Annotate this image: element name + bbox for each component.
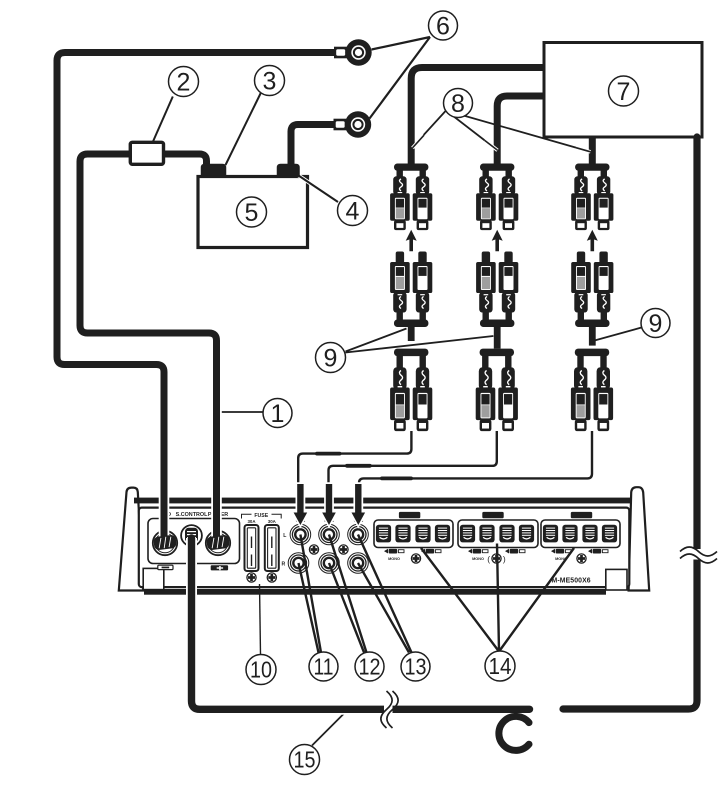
callout 9 right: [641, 309, 670, 338]
leader line callout 10 to fuses: [260, 584, 261, 655]
leader lines callout 11 to ch-A input jacks: [299, 535, 322, 653]
amplifier bottom band: [144, 589, 606, 595]
cord 8a head unit to column 1: [411, 68, 544, 166]
leader line callout 9 right to junction: [595, 328, 642, 341]
CH-C label badge: [571, 512, 592, 518]
callout 14: [485, 651, 515, 681]
battery positive cable: ring terminal to battery: [291, 125, 341, 167]
signal lead column 3 to amp: [359, 431, 592, 488]
speaker terminals CH-B: [460, 525, 475, 543]
fuse screw 2: [267, 573, 276, 582]
svg-text:CH-C: CH-C: [576, 513, 589, 519]
svg-text:6: 6: [436, 13, 450, 41]
leader lines callout 13 to ch-C input jacks: [358, 535, 412, 653]
fuse holder (2): [130, 142, 163, 164]
polarity pills CH-B: [468, 549, 488, 554]
power terminal block outline: [148, 519, 240, 564]
svg-text:7: 7: [617, 78, 631, 106]
leader tip overlays callout 8: [413, 135, 425, 148]
callout 13: [401, 652, 430, 681]
svg-text:14: 14: [489, 653, 512, 679]
plug arrow into jack C: [352, 484, 366, 525]
polarity pills CH-A: [384, 549, 404, 554]
input jack L ch-C: [348, 524, 369, 545]
svg-text:8: 8: [451, 90, 465, 118]
svg-text:(: (: [487, 554, 490, 564]
speaker terminals CH-C: [543, 525, 558, 543]
fuse holder 2: [265, 525, 279, 571]
plug stem column 1: [408, 325, 415, 342]
arrow up column 1: [406, 230, 417, 252]
signal lead column 1 to amp: [298, 431, 411, 488]
amplifier left foot: [143, 568, 164, 589]
svg-text:M-ME500X6: M-ME500X6: [552, 577, 591, 584]
svg-text:13: 13: [405, 654, 427, 680]
callout 15: [290, 745, 320, 775]
break symbol on right cord: [690, 549, 705, 560]
ferrite on lead 2: [345, 464, 372, 468]
input jack R ch-C: [348, 553, 369, 574]
RCA female pair column 3: [571, 164, 613, 231]
leader line callout 1 to power cord: [219, 411, 264, 413]
svg-text:4: 4: [346, 198, 360, 226]
callout 3: [255, 66, 285, 96]
leader lines callout 8 to three cords: [415, 111, 590, 152]
cord 8c head unit to column 3: [589, 137, 596, 165]
svg-text:R: R: [282, 562, 286, 568]
RCA female pair column 1: [390, 164, 432, 231]
power cable: fuse to amp POWER: [80, 154, 217, 541]
speaker block CH-C outline: [541, 520, 620, 548]
hook end of cord 15: [499, 716, 529, 750]
POWER terminal clamp: [206, 534, 230, 550]
callout 7: [609, 76, 639, 106]
svg-text:): ): [503, 554, 506, 564]
battery positive terminal 4: [278, 165, 300, 177]
head unit power cord right side: [563, 137, 697, 709]
jack screw 2: [339, 545, 348, 554]
input jack R ch-A: [288, 553, 309, 574]
speaker block CH-B outline: [458, 520, 538, 548]
RCA male pair up column 1: [390, 252, 432, 328]
speaker cord 15 from S.CONTROL: [192, 538, 530, 709]
battery negative terminal 3: [202, 165, 226, 177]
svg-text:11: 11: [314, 654, 334, 680]
leader line callout 4 to battery positive terminal: [296, 174, 339, 203]
leader line callout 2 to fuse: [153, 97, 173, 142]
svg-text:MONO: MONO: [472, 557, 484, 561]
svg-text:2: 2: [177, 69, 191, 97]
svg-text:9: 9: [649, 310, 663, 338]
plug stem column 3: [589, 325, 596, 346]
plug arrow into jack A: [294, 484, 308, 525]
cord 8b head unit to column 2: [497, 96, 544, 165]
screw under A: [411, 554, 420, 563]
RCA male pair down column 1: [390, 349, 432, 432]
svg-text:10: 10: [250, 657, 272, 683]
leader line callout 15 to cord: [312, 713, 345, 746]
speaker terminals CH-A: [376, 525, 391, 543]
input jack R ch-B: [319, 553, 340, 574]
ferrite on lead 1: [315, 452, 342, 456]
head unit box: [544, 43, 702, 138]
callout 11: [309, 652, 338, 681]
leader lines callout 9 left to junctions: [346, 329, 494, 353]
callout 6: [429, 11, 458, 40]
signal lead column 2 to amp: [329, 431, 497, 488]
svg-text:30A: 30A: [247, 519, 256, 524]
screw under C: [577, 554, 586, 563]
svg-text:15: 15: [294, 747, 316, 773]
jack screw 1: [309, 545, 318, 554]
fuse holder 1: [245, 525, 259, 571]
svg-text:CH-A: CH-A: [404, 513, 417, 519]
amplifier rear face: [139, 508, 630, 587]
callout 10: [246, 655, 276, 685]
amplifier chassis right fin: [629, 487, 650, 590]
minus badge: [158, 565, 173, 569]
ring terminal 6a: [334, 39, 372, 65]
GND terminal clamp: [153, 534, 177, 550]
CH-A label badge: [399, 512, 420, 518]
RCA male pair up column 2: [476, 252, 518, 328]
svg-text:FUSE: FUSE: [254, 513, 268, 519]
RCA male pair up column 3: [571, 252, 613, 328]
input jack L ch-B: [319, 524, 340, 545]
battery: [198, 177, 308, 248]
svg-text:3: 3: [263, 68, 277, 96]
CH-B label badge: [482, 512, 503, 518]
RCA female pair column 2: [476, 164, 518, 231]
svg-text:30A: 30A: [268, 519, 277, 524]
callout 1: [263, 399, 292, 428]
RCA male pair down column 3: [571, 349, 613, 432]
svg-text:1: 1: [271, 400, 285, 428]
callout 9 left: [316, 343, 346, 373]
ferrite on lead 3: [380, 477, 413, 481]
plug stem column 2: [494, 325, 501, 349]
RCA male pair down column 2: [476, 349, 518, 432]
arrow up column 3: [587, 230, 598, 252]
callout 8: [444, 89, 473, 118]
break symbol on cord 15: [384, 703, 393, 717]
callout 4: [338, 196, 368, 226]
callout 2: [169, 67, 199, 97]
leader line callout 3 to battery positive terminal: [226, 92, 262, 166]
callout 12: [355, 652, 384, 681]
POWER terminal: [206, 531, 230, 555]
callout 5: [237, 197, 267, 227]
polarity pills CH-C: [551, 549, 571, 554]
amplifier chassis left fin: [119, 488, 144, 591]
svg-text:5: 5: [245, 199, 259, 227]
cable battery to fuse: [163, 154, 207, 166]
amplifier top edge band: [134, 498, 632, 504]
S.CONTROL jack: [181, 525, 202, 546]
leader lines callout 6 to ring terminals: [370, 37, 431, 119]
svg-text:CH-B: CH-B: [487, 513, 500, 519]
amplifier right foot: [606, 569, 627, 590]
leader lines callout 12 to ch-B input jacks: [329, 535, 367, 653]
ground cable: ring terminal to amp GND: [57, 53, 341, 542]
svg-text:9: 9: [324, 345, 338, 373]
input jack L ch-A: [290, 524, 311, 545]
svg-text:MONO: MONO: [388, 557, 400, 561]
svg-text:S.CONTROL: S.CONTROL: [176, 512, 208, 518]
arrow up column 2: [492, 230, 503, 252]
GND terminal: [153, 531, 177, 555]
ring terminal 6b: [334, 111, 372, 137]
fuse screw 1: [247, 573, 256, 582]
leader lines callout 14 to speaker blocks: [421, 544, 574, 652]
svg-text:12: 12: [359, 654, 381, 680]
plus badge: [211, 565, 228, 570]
plug arrow into jack B: [322, 484, 336, 525]
speaker block CH-A outline: [374, 520, 453, 548]
